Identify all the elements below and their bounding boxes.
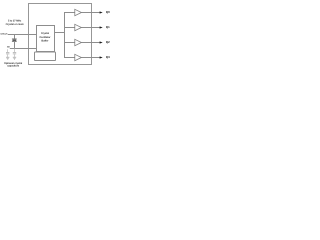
- svg-text:Buffer: Buffer: [41, 39, 48, 42]
- svg-text:Q1: Q1: [106, 25, 110, 29]
- svg-text:Q2: Q2: [106, 40, 110, 44]
- svg-text:XA/CLK: XA/CLK: [0, 33, 8, 36]
- svg-text:Q3: Q3: [106, 55, 110, 59]
- svg-text:5 to 27 MHz: 5 to 27 MHz: [8, 20, 22, 23]
- svg-text:Crystal: Crystal: [41, 32, 49, 35]
- svg-text:capacitors: capacitors: [7, 65, 20, 68]
- svg-text:Q0: Q0: [106, 10, 110, 14]
- svg-text:Crystal or clock: Crystal or clock: [6, 23, 25, 26]
- svg-text:Oscillator: Oscillator: [39, 36, 50, 39]
